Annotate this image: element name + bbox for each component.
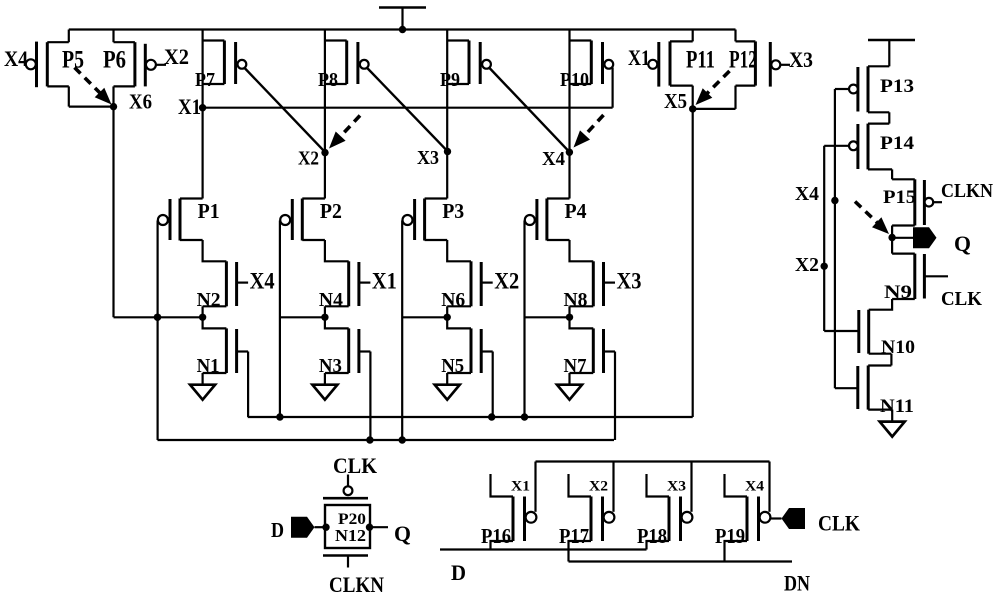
svg-text:P8: P8 [318, 69, 338, 91]
wire N7 gate down [614, 352, 616, 441]
node Q [888, 234, 895, 241]
label N3 [319, 355, 342, 377]
transistor N9 [869, 238, 948, 310]
transistor P6 [114, 30, 167, 107]
wire node row column 2 [280, 316, 325, 318]
ground under N1 [190, 385, 215, 400]
label X3 (node) [417, 147, 439, 169]
svg-text:P7: P7 [195, 69, 215, 91]
wire N1 gate down [247, 352, 249, 418]
gate plate bottom [323, 554, 368, 557]
label X2 (gate of N6) [494, 269, 519, 294]
wire node row column 4 [525, 316, 570, 318]
input arrow D [291, 517, 315, 538]
wire D line [440, 548, 647, 550]
svg-text:CLK: CLK [941, 288, 982, 310]
wire P10 gate to X1 line [611, 68, 613, 108]
svg-text:N1: N1 [197, 355, 220, 377]
svg-text:X1: X1 [372, 269, 397, 294]
dashed arrow to X4 [574, 115, 604, 148]
junction D-box [322, 524, 329, 531]
transistor P14 [824, 124, 892, 180]
junction column 4 [566, 314, 573, 321]
svg-text:DN: DN [784, 571, 810, 596]
svg-text:Q: Q [394, 521, 411, 546]
wire gate rail drop P19 [768, 462, 770, 512]
label P7 [195, 69, 215, 91]
gate plate top [323, 497, 368, 500]
node X4 (right) [831, 197, 838, 204]
node X5 [689, 105, 696, 112]
svg-text:X2: X2 [298, 148, 319, 170]
label P3 [442, 199, 464, 223]
junction column 3 [444, 314, 451, 321]
wire node row column 3 [402, 316, 447, 318]
label D (line) [451, 560, 466, 585]
transistor P16 [491, 474, 537, 550]
node X2 [321, 149, 328, 156]
junction column 1 [199, 314, 206, 321]
label N4 [319, 289, 343, 311]
wire diagonal P9 gate to X4 [490, 68, 570, 152]
svg-text:X1: X1 [628, 45, 650, 70]
junction column 1 [154, 314, 161, 321]
wire P4 drain step [570, 240, 594, 261]
svg-text:X3: X3 [789, 47, 813, 72]
label P8 [318, 69, 338, 91]
node X4 [566, 149, 573, 156]
label P1 [198, 199, 220, 223]
svg-text:N3: N3 [319, 355, 342, 377]
label DN [784, 571, 810, 596]
label P11 [686, 47, 715, 74]
svg-text:N4: N4 [319, 289, 343, 311]
label X1 (source of P16) [511, 479, 530, 495]
label N5 [441, 355, 464, 377]
svg-text:CLK: CLK [818, 511, 860, 536]
svg-text:P17: P17 [559, 524, 589, 548]
transistor N5 [447, 317, 493, 384]
wire X6 down [112, 107, 114, 318]
label N7 [564, 355, 587, 377]
wire gate rail drop P16 [534, 462, 536, 512]
label P12 [729, 47, 757, 74]
svg-text:X1: X1 [178, 94, 201, 119]
svg-text:X2: X2 [795, 254, 819, 276]
transistor N3 [325, 317, 371, 384]
svg-text:P14: P14 [880, 133, 915, 154]
svg-text:N5: N5 [441, 355, 464, 377]
svg-text:P3: P3 [442, 199, 464, 223]
gate stub bottom [347, 556, 349, 568]
svg-text:X3: X3 [417, 147, 439, 169]
label P19 [715, 524, 745, 548]
transistor P11 [648, 30, 692, 109]
label P6 [103, 47, 126, 74]
svg-text:N8: N8 [564, 289, 588, 311]
wire column 1 vertical [202, 30, 204, 199]
label N10 [881, 337, 915, 358]
ground under N7 [557, 385, 582, 400]
wire DN line [569, 560, 793, 562]
svg-text:X6: X6 [129, 90, 152, 114]
ground under N3 [312, 385, 337, 400]
dashed arrow to X5 [696, 71, 730, 105]
wire P2 gate down [279, 221, 281, 418]
transistor P4 [525, 199, 570, 241]
svg-text:P1: P1 [198, 199, 220, 223]
svg-text:P11: P11 [686, 47, 715, 74]
label P18 [637, 524, 667, 548]
wire diagonal P7 gate to X2 [245, 68, 325, 152]
transistor N2 [203, 261, 249, 317]
label P17 [559, 524, 589, 548]
wire N3 gate down [369, 352, 371, 441]
transistor P17 [569, 474, 615, 562]
svg-text:CLKN: CLKN [329, 572, 384, 597]
transistor N7 [570, 317, 616, 384]
box P20/N12 [325, 505, 370, 548]
wire P1 gate down [157, 221, 159, 441]
transistor N4 [325, 261, 371, 317]
dashed arrow to X6 [75, 68, 112, 105]
transistor N8 [570, 261, 616, 317]
wire P14 gate down (X2) [823, 146, 825, 331]
label X4 (source of P19) [745, 479, 765, 495]
label X4 (gate of P5) [4, 46, 28, 71]
label X6 [129, 90, 152, 114]
transistor P12 [693, 30, 790, 109]
label Q (inverter output) [394, 521, 411, 546]
svg-text:P13: P13 [880, 76, 914, 97]
label X4 (node) [542, 148, 565, 170]
wire P13 gate down (X4) [834, 89, 836, 388]
svg-text:P16: P16 [481, 524, 511, 548]
label N12 [335, 526, 366, 545]
svg-text:P4: P4 [565, 199, 587, 223]
label P10 [560, 69, 589, 91]
svg-text:CLKN: CLKN [941, 180, 993, 202]
transistor P9 [447, 41, 491, 85]
power supply symbol (right) [868, 40, 915, 66]
wire X6 drain link [69, 105, 114, 107]
label X3 (source of P18) [667, 479, 686, 495]
wire P4 gate down [523, 221, 525, 418]
label X1 (node) [178, 94, 201, 119]
svg-text:X3: X3 [667, 479, 686, 495]
label X3 (gate of P12) [789, 47, 813, 72]
svg-text:X4: X4 [795, 183, 819, 205]
junction B-N3gate [366, 436, 373, 443]
svg-text:X2: X2 [589, 479, 608, 495]
label P15 [883, 187, 916, 208]
transistor P18 [647, 474, 693, 550]
transistor P10 [570, 41, 614, 85]
label P14 [880, 133, 915, 154]
node X2 (right) [821, 263, 828, 270]
label D (input) [271, 518, 284, 542]
junction A-P2gate [276, 413, 283, 420]
label X4 (gate of N2) [250, 269, 275, 294]
wire feedback line A [248, 416, 693, 418]
svg-text:X4: X4 [745, 479, 765, 495]
dashed arrow to X2 [329, 116, 360, 149]
junction on VDD rail [399, 26, 406, 33]
ground under N5 [435, 385, 460, 400]
label N11 [880, 396, 914, 417]
svg-text:P15: P15 [883, 187, 916, 208]
wire P3 drain step [447, 240, 471, 261]
wire to CLK arrow [770, 517, 781, 519]
label N6 [441, 289, 465, 311]
transistor P13 [835, 66, 889, 123]
svg-text:X4: X4 [250, 269, 275, 294]
transistor P5 [26, 30, 69, 107]
label X4 (right) [795, 183, 819, 205]
label CLK (gate of N9) [941, 288, 982, 310]
svg-text:X2: X2 [494, 269, 519, 294]
svg-text:P9: P9 [440, 69, 460, 91]
svg-text:P18: P18 [637, 524, 667, 548]
junction column 2 [321, 314, 328, 321]
junction B-P3gate [399, 436, 406, 443]
junction A-N5gate [488, 413, 495, 420]
wire P1 drain step [203, 240, 227, 261]
wire P3 gate down [401, 221, 403, 441]
wire X5 down [692, 109, 694, 417]
svg-text:N7: N7 [564, 355, 587, 377]
label N2 [197, 289, 221, 311]
label CLKN (gate of P15) [941, 180, 993, 202]
junction P1 gate wire [154, 314, 161, 321]
label X2 (node) [298, 148, 319, 170]
svg-text:X4: X4 [542, 148, 565, 170]
svg-text:N9: N9 [884, 282, 912, 303]
svg-text:CLK: CLK [333, 453, 377, 478]
junction A-P4gate [521, 413, 528, 420]
transistor N6 [447, 261, 493, 317]
label CLK (pass gates) [818, 511, 860, 536]
label N1 [197, 355, 220, 377]
transistor N11 [835, 366, 892, 422]
wire gate rail drop P17 [612, 462, 614, 512]
svg-text:N12: N12 [335, 526, 366, 545]
transistor N1 [203, 317, 249, 384]
wire column 2 vertical [324, 30, 326, 199]
svg-text:P19: P19 [715, 524, 745, 548]
label P20 [338, 511, 366, 528]
wire gate rail drop P18 [690, 462, 692, 512]
wire Q lead [892, 237, 915, 239]
label P5 [62, 47, 84, 74]
node X1 [199, 104, 206, 111]
label Q (output) [954, 231, 971, 256]
wire X1 horizontal [203, 107, 613, 109]
input arrow CLK [782, 508, 806, 529]
gate bubble P20 [344, 486, 353, 495]
wire diagonal P8 gate to X3 [367, 68, 447, 151]
label CLK (inverter) [333, 453, 377, 478]
transistor P7 [203, 41, 247, 85]
wire column 3 vertical [446, 30, 448, 199]
svg-text:P2: P2 [320, 199, 342, 223]
svg-text:P12: P12 [729, 47, 757, 74]
svg-text:Q: Q [954, 231, 971, 256]
wire N5 gate down [492, 352, 494, 418]
label P2 [320, 199, 342, 223]
node X3 [444, 148, 451, 155]
svg-text:D: D [451, 560, 466, 585]
power supply symbol [379, 8, 426, 30]
svg-text:P5: P5 [62, 47, 84, 74]
label X2 (source of P17) [589, 479, 608, 495]
transistor P15 [892, 179, 942, 237]
transistor P1 [158, 199, 203, 241]
transistor P2 [280, 199, 325, 241]
wire box to Q [370, 526, 389, 528]
transistor P19 [725, 474, 771, 562]
label P13 [880, 76, 914, 97]
junction box-Q [366, 524, 373, 531]
label X2 (gate of P6) [164, 44, 189, 69]
label X2 (right) [795, 254, 819, 276]
svg-text:P10: P10 [560, 69, 589, 91]
svg-text:X3: X3 [617, 269, 642, 294]
label X5 [664, 89, 687, 113]
dashed arrow to Q node [855, 202, 889, 235]
wire P2 drain step [325, 240, 349, 261]
label X1 (gate of P11) [628, 45, 650, 70]
wire CLK gate rail [536, 460, 770, 462]
svg-text:N6: N6 [441, 289, 465, 311]
ground under N11 [880, 422, 905, 437]
transistor P8 [325, 41, 369, 85]
svg-text:N11: N11 [880, 396, 914, 417]
transistor N10 [824, 310, 891, 366]
wire CLK to gate [347, 475, 349, 487]
label X3 (gate of N8) [617, 269, 642, 294]
wire feedback line B [158, 439, 615, 441]
wire node row column 1 [114, 316, 203, 318]
label CLKN (inverter) [329, 572, 384, 597]
label P4 [565, 199, 587, 223]
output arrow Q [913, 227, 937, 248]
wire column 4 vertical [568, 30, 570, 199]
svg-text:N10: N10 [881, 337, 915, 358]
label N9 [884, 282, 912, 303]
label N8 [564, 289, 588, 311]
node X6 [110, 103, 117, 110]
svg-text:X2: X2 [164, 44, 189, 69]
label P16 [481, 524, 511, 548]
svg-text:P6: P6 [103, 47, 126, 74]
svg-text:D: D [271, 518, 284, 542]
label P9 [440, 69, 460, 91]
label X1 (gate of N4) [372, 269, 397, 294]
wire VDD rail [69, 28, 736, 30]
wire D to box [315, 526, 327, 528]
svg-text:X1: X1 [511, 479, 530, 495]
svg-text:N2: N2 [197, 289, 221, 311]
svg-text:X5: X5 [664, 89, 687, 113]
svg-text:X4: X4 [4, 46, 28, 71]
transistor P3 [403, 199, 448, 241]
